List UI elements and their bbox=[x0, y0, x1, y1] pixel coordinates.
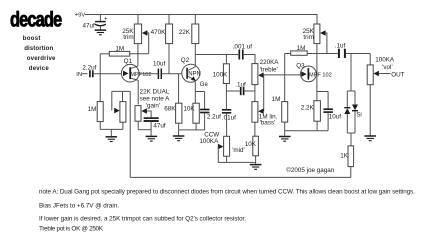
ground vol pot bbox=[364, 136, 376, 141]
svg-text:100KA: 100KA bbox=[375, 56, 395, 63]
svg-text:'treble': 'treble' bbox=[260, 67, 278, 74]
svg-text:+9V: +9V bbox=[75, 12, 86, 18]
svg-text:Ge: Ge bbox=[200, 82, 209, 88]
wire bass wiper link bbox=[263, 75, 265, 111]
logo decade bbox=[10, 8, 62, 31]
svg-text:IN: IN bbox=[76, 72, 82, 78]
transistor Q1 MPF102 bbox=[121, 58, 151, 82]
svg-text:10K: 10K bbox=[245, 141, 257, 148]
capacitor 2.2uf input bbox=[76, 65, 121, 78]
svg-text:22K DUAL: 22K DUAL bbox=[140, 89, 170, 96]
resistor 100K bbox=[213, 55, 230, 110]
transistor Q2 NPN Ge bbox=[181, 57, 209, 88]
wire gate junction vertical bbox=[99, 54, 101, 102]
wire diode to 1K bbox=[350, 133, 352, 146]
wire Q1 source bbox=[137, 80, 139, 104]
potentiometer 100KA vol bbox=[367, 54, 404, 136]
svg-text:10K: 10K bbox=[183, 106, 195, 113]
svg-text:device: device bbox=[29, 65, 50, 72]
transistor Q3 MPF102 bbox=[296, 62, 332, 82]
resistor 470K bbox=[151, 15, 173, 74]
ground Q2 emitter network bbox=[173, 130, 185, 141]
svg-text:100KA: 100KA bbox=[199, 138, 219, 145]
wire Q2 collector node bbox=[195, 54, 238, 56]
svg-text:22K: 22K bbox=[179, 29, 191, 36]
svg-text:1M: 1M bbox=[115, 45, 124, 52]
ground supply bbox=[95, 30, 107, 35]
svg-text:note A: Dual Gang pot speciall: note A: Dual Gang pot specially prepared… bbox=[39, 188, 415, 195]
wire ground potA/1M bbox=[100, 128, 123, 130]
svg-text:2.2uf: 2.2uf bbox=[82, 65, 96, 72]
wire Q2 emitter bbox=[194, 82, 196, 92]
wire gain bus vertical bbox=[129, 91, 131, 177]
svg-text:trim: trim bbox=[123, 34, 134, 41]
svg-text:decade: decade bbox=[10, 8, 62, 31]
svg-text:2.2K: 2.2K bbox=[301, 105, 315, 112]
svg-text:Bias JFets to +6.7V @ drain.: Bias JFets to +6.7V @ drain. bbox=[39, 203, 119, 210]
svg-text:Si: Si bbox=[356, 112, 361, 118]
svg-text:100K: 100K bbox=[213, 72, 229, 79]
svg-text:1M: 1M bbox=[272, 96, 281, 103]
resistor 1M horizontal (Q3 bias) bbox=[285, 45, 338, 55]
trimpot 25K trim (Q3 drain) bbox=[303, 24, 327, 101]
ground Q3 network bbox=[279, 137, 291, 142]
svg-text:©2005 joe gagan: ©2005 joe gagan bbox=[286, 166, 335, 174]
capacitor 2.2uf bypass bbox=[200, 92, 221, 130]
capacitor 47uf source bypass bbox=[144, 118, 166, 136]
svg-text:.1uf: .1uf bbox=[235, 81, 246, 88]
potentiometer 22K dual gang section B bbox=[135, 106, 151, 130]
svg-text:220KA: 220KA bbox=[260, 59, 280, 66]
svg-text:Treble pot is OK @ 250K: Treble pot is OK @ 250K bbox=[39, 225, 104, 232]
svg-text:1K: 1K bbox=[340, 152, 349, 159]
potentiometer 22K dual gang section A bbox=[112, 91, 130, 129]
svg-text:OUT: OUT bbox=[391, 71, 404, 78]
potentiometer 1M lin bass bbox=[252, 102, 278, 137]
svg-text:If lower gain is desired, a 25: If lower gain is desired, a 25K trimpot … bbox=[39, 215, 246, 222]
svg-text:Q3: Q3 bbox=[296, 62, 305, 69]
resistor 1K bbox=[340, 146, 353, 178]
capacitor .01uf bbox=[222, 110, 236, 137]
resistor 1M to ground (Q1 gate) bbox=[88, 102, 104, 130]
wire gain bus bottom bbox=[130, 176, 351, 178]
svg-text:1M: 1M bbox=[88, 106, 97, 113]
svg-text:'vol': 'vol' bbox=[382, 64, 392, 71]
svg-text:.1uf: .1uf bbox=[335, 43, 346, 50]
capacitor 10uf coupling bbox=[139, 60, 182, 79]
svg-text:470K: 470K bbox=[151, 29, 167, 36]
ground 47uf bbox=[146, 136, 158, 141]
svg-text:47uf: 47uf bbox=[83, 23, 96, 30]
capacitor 47uf supply filter bbox=[83, 15, 109, 30]
potentiometer 220KA treble bbox=[252, 59, 279, 102]
diode pair Si clipping bbox=[344, 54, 361, 134]
svg-text:.01uf: .01uf bbox=[222, 114, 236, 121]
potentiometer CCW 100KA mid bbox=[199, 131, 255, 162]
svg-text:distortion: distortion bbox=[24, 45, 53, 52]
svg-text:'mid': 'mid' bbox=[232, 147, 245, 154]
resistor 10K (Q2 emitter) bbox=[183, 103, 199, 130]
wire 2.2K/10uf to ground bbox=[285, 130, 328, 132]
svg-text:68K: 68K bbox=[164, 106, 176, 113]
wire emitter ground bus bbox=[179, 129, 205, 131]
svg-text:10uf: 10uf bbox=[329, 113, 342, 120]
svg-text:Q2: Q2 bbox=[181, 57, 190, 64]
trimpot 25K trim (Q1 drain) bbox=[122, 15, 148, 66]
svg-text:trim: trim bbox=[303, 34, 314, 41]
svg-text:boost: boost bbox=[23, 35, 41, 42]
capacitor .001uf bbox=[233, 44, 253, 60]
svg-text:1M: 1M bbox=[297, 45, 306, 52]
svg-text:MPF102: MPF102 bbox=[130, 72, 151, 78]
resistor 10K (mid) bbox=[245, 136, 259, 164]
wire Q3 gate junction vertical bbox=[284, 54, 286, 102]
resistor 68K bbox=[164, 74, 182, 130]
svg-text:'gain': 'gain' bbox=[146, 102, 160, 109]
resistor 1M to ground (Q3 gate) bbox=[272, 96, 288, 137]
capacitor .1uf bbox=[226, 81, 255, 95]
svg-text:10uf: 10uf bbox=[153, 60, 166, 67]
wire treble wiper to Q3 gate bbox=[264, 74, 301, 76]
svg-text:2.2uf: 2.2uf bbox=[207, 114, 221, 121]
capacitor 10uf source bypass bbox=[317, 92, 341, 131]
capacitor 1uf output bbox=[335, 43, 370, 58]
ground mid network bbox=[250, 165, 262, 170]
svg-text:'bass': 'bass' bbox=[260, 119, 276, 126]
svg-text:.001 uf: .001 uf bbox=[233, 44, 253, 51]
wire +9V rail bbox=[85, 15, 317, 25]
svg-text:NPN: NPN bbox=[188, 72, 201, 78]
svg-text:MPF 102: MPF 102 bbox=[309, 72, 332, 78]
svg-text:Q1: Q1 bbox=[124, 58, 133, 65]
wire to treble top bbox=[244, 55, 255, 64]
resistor 2.2K (Q3 source) bbox=[301, 101, 321, 131]
svg-text:overdrive: overdrive bbox=[27, 55, 56, 62]
ground potA network bbox=[106, 129, 118, 141]
resistor 22K (Q2 collector) bbox=[179, 15, 199, 67]
resistor 1M horizontal (Q1 bias) bbox=[100, 45, 149, 56]
svg-text:47uf: 47uf bbox=[153, 122, 166, 129]
